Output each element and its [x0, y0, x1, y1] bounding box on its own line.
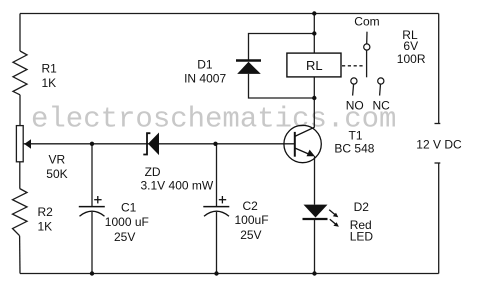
- wire R1 to VR: [19, 95, 21, 126]
- junction node C2 top: [213, 142, 217, 146]
- svg-text:100R: 100R: [397, 52, 426, 66]
- resistor R1: [13, 51, 27, 95]
- svg-text:25V: 25V: [240, 228, 261, 242]
- svg-text:RL: RL: [306, 58, 323, 73]
- capacitor C1 symbol: [79, 196, 105, 216]
- supply terminal tick lower: [435, 162, 441, 164]
- svg-text:ZD: ZD: [145, 165, 161, 179]
- svg-text:NC: NC: [373, 99, 391, 113]
- relay contact Com terminal: [364, 32, 370, 78]
- supply terminal tick upper: [435, 123, 441, 125]
- svg-text:LED: LED: [350, 230, 374, 244]
- svg-text:R2: R2: [38, 205, 54, 219]
- wire C2 lower: [216, 212, 218, 274]
- relay actuation dashed link: [342, 65, 365, 67]
- junction node C2 bottom: [214, 271, 218, 275]
- potentiometer VR wiper arrow: [24, 139, 31, 148]
- transistor T1: [284, 125, 321, 162]
- wire VR to R2: [19, 162, 21, 189]
- light arrow 2: [330, 219, 336, 224]
- wire middle (wiper to base): [24, 143, 295, 145]
- diode D1 symbol: [236, 61, 261, 74]
- wire D1 top branch: [249, 34, 315, 60]
- svg-text:IN 4007: IN 4007: [184, 71, 226, 85]
- wire left rail upper: [19, 14, 21, 52]
- relay lever: [366, 50, 368, 77]
- svg-text:BC 548: BC 548: [334, 142, 374, 156]
- wire C1 upper: [91, 144, 93, 207]
- wire right rail lower: [438, 163, 440, 274]
- junction node top rail / relay: [312, 11, 316, 15]
- junction node C1 bottom: [90, 271, 94, 275]
- svg-text:R1: R1: [42, 62, 58, 76]
- light arrow 1: [329, 210, 335, 215]
- wire right rail upper: [438, 14, 440, 124]
- svg-text:D2: D2: [354, 200, 370, 214]
- capacitor C2 symbol: [203, 196, 229, 216]
- wire D1 bottom branch: [249, 74, 315, 98]
- svg-text:1000 uF: 1000 uF: [105, 215, 149, 229]
- svg-text:100uF: 100uF: [235, 213, 269, 227]
- junction node C1 top: [90, 142, 94, 146]
- svg-text:D1: D1: [197, 57, 213, 71]
- LED D2 symbol: [303, 205, 339, 227]
- junction node D1 bottom: [312, 96, 316, 100]
- wire C2 upper: [216, 144, 218, 207]
- svg-text:25V: 25V: [114, 230, 135, 244]
- resistor R2: [13, 189, 28, 236]
- svg-text:6V: 6V: [403, 39, 418, 53]
- collector lead: [295, 127, 315, 136]
- svg-text:VR: VR: [49, 152, 66, 166]
- svg-text:C1: C1: [121, 200, 137, 214]
- emitter lead: [295, 148, 310, 154]
- relay contact NC terminal: [378, 78, 384, 96]
- svg-text:C2: C2: [243, 199, 259, 213]
- svg-text:50K: 50K: [46, 167, 67, 181]
- svg-text:NO: NO: [346, 99, 364, 113]
- junction node D1 top: [312, 31, 316, 35]
- wire bottom rail: [20, 273, 439, 275]
- wire emitter down to LED: [314, 156, 316, 205]
- svg-text:Com: Com: [354, 14, 379, 28]
- svg-text:3.1V 400 mW: 3.1V 400 mW: [141, 179, 214, 193]
- zener ZD symbol: [143, 133, 159, 156]
- relay contact NO terminal: [351, 78, 357, 96]
- potentiometer VR body: [16, 126, 23, 162]
- svg-text:1K: 1K: [42, 76, 57, 90]
- wire C1 lower: [91, 212, 93, 274]
- junction node LED bottom: [312, 271, 316, 275]
- wire relay rail (top to collector): [313, 14, 315, 128]
- relay coil RL box: [287, 53, 341, 77]
- wire top rail: [20, 13, 439, 15]
- wire R2 to bottom rail: [19, 236, 21, 274]
- svg-text:T1: T1: [349, 129, 363, 143]
- wire LED to bottom rail: [314, 219, 316, 274]
- svg-text:1K: 1K: [38, 220, 53, 234]
- svg-text:12 V DC: 12 V DC: [416, 137, 462, 151]
- svg-text:electroschematics.com: electroschematics.com: [31, 103, 396, 136]
